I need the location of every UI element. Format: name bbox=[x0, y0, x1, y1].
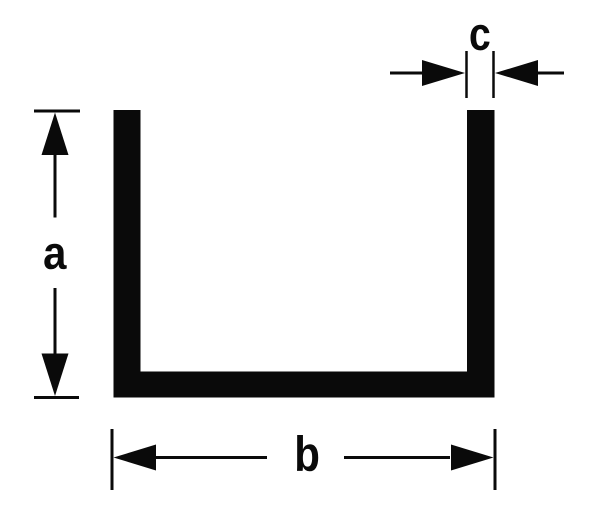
label c bbox=[471, 25, 490, 51]
dimension c: left wire bbox=[390, 72, 423, 75]
dimension c: right extension line bbox=[492, 51, 495, 98]
dimension a: arrow down bbox=[42, 354, 69, 397]
dimension c: right wire bbox=[538, 72, 564, 75]
label b bbox=[297, 435, 318, 471]
dimension a: arrow up bbox=[42, 113, 69, 156]
dimension b: arrow pointing right bbox=[451, 445, 494, 471]
dimension c: arrow pointing right bbox=[422, 60, 465, 86]
U-channel profile bbox=[114, 110, 495, 398]
dimension b: right wire segment bbox=[344, 456, 450, 459]
dimension b: left wire segment bbox=[155, 456, 267, 459]
dimension b: arrow pointing left bbox=[114, 445, 157, 471]
dimension a: upper wire segment bbox=[54, 153, 57, 218]
dimension c: arrow pointing left bbox=[495, 60, 538, 86]
dimension b: left extension line bbox=[111, 429, 114, 490]
dimension a: lower wire segment bbox=[54, 288, 57, 355]
label a bbox=[44, 244, 66, 269]
dimension a: bottom tick bbox=[34, 396, 79, 399]
dimension c: left extension line bbox=[465, 51, 468, 98]
dimension b: right extension line bbox=[494, 429, 497, 490]
dimension a: top tick bbox=[34, 110, 80, 113]
